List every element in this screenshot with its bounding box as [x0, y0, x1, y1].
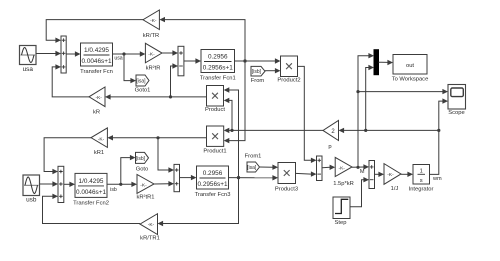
svg-text:M: M [360, 169, 365, 175]
svg-text:[isb]: [isb] [136, 156, 146, 162]
svg-text:1/J: 1/J [391, 186, 399, 192]
svg-text:-K-: -K- [150, 18, 157, 24]
svg-text:0.2956s+1: 0.2956s+1 [197, 181, 227, 188]
svg-text:Transfer Fcn3: Transfer Fcn3 [195, 192, 231, 198]
svg-text:kR²tR: kR²tR [146, 66, 161, 72]
svg-text:-K-: -K- [148, 51, 155, 57]
svg-text:[isb]: [isb] [252, 69, 262, 75]
svg-text:kR1: kR1 [94, 150, 104, 156]
svg-text:p: p [328, 144, 331, 150]
svg-text:[isa]: [isa] [247, 165, 257, 171]
svg-text:Product: Product [205, 107, 225, 113]
svg-text:-K-: -K- [338, 165, 345, 171]
svg-text:usa: usa [114, 56, 122, 62]
svg-text:0.0046s+1: 0.0046s+1 [76, 189, 106, 196]
svg-text:0.0046s+1: 0.0046s+1 [81, 58, 111, 65]
svg-text:kR/TR: kR/TR [143, 33, 159, 39]
svg-text:1/0.4295: 1/0.4295 [84, 47, 109, 54]
svg-text:Product1: Product1 [203, 149, 226, 155]
svg-text:Transfer Fcn1: Transfer Fcn1 [200, 76, 236, 82]
svg-text:kR/TR1: kR/TR1 [140, 236, 160, 242]
svg-text:Scope: Scope [448, 110, 464, 116]
svg-text:0.2956s+1: 0.2956s+1 [203, 64, 233, 71]
svg-text:usa: usa [23, 66, 34, 73]
svg-text:Integrator: Integrator [409, 186, 434, 192]
svg-text:1: 1 [420, 168, 423, 174]
svg-text:-K-: -K- [387, 172, 394, 178]
svg-text:From: From [251, 78, 265, 84]
svg-text:-K-: -K- [95, 95, 102, 101]
svg-text:kR: kR [93, 109, 100, 115]
svg-text:[isa]: [isa] [136, 79, 146, 85]
svg-text:From1: From1 [245, 154, 262, 160]
svg-text:-K-: -K- [98, 136, 105, 142]
svg-text:1/0.4295: 1/0.4295 [79, 178, 104, 185]
svg-text:0.2956: 0.2956 [208, 53, 228, 60]
svg-text:Transfer Fcn: Transfer Fcn [80, 69, 113, 75]
svg-text:out: out [406, 63, 414, 69]
svg-text:-K-: -K- [148, 222, 155, 228]
svg-text:0.2956: 0.2956 [203, 170, 223, 177]
svg-text:Goto: Goto [136, 167, 149, 173]
svg-text:wm: wm [432, 176, 442, 182]
svg-text:kR²tR1: kR²tR1 [136, 195, 154, 201]
svg-text:-K-: -K- [140, 182, 147, 188]
svg-text:s: s [420, 178, 423, 184]
svg-text:isb: isb [110, 187, 117, 193]
svg-text:Step: Step [335, 220, 347, 226]
svg-text:To Workspace: To Workspace [392, 77, 429, 83]
svg-text:Goto1: Goto1 [135, 88, 151, 94]
svg-text:usb: usb [26, 196, 37, 203]
svg-text:Product3: Product3 [275, 187, 298, 193]
svg-text:Transfer Fcn2: Transfer Fcn2 [73, 200, 109, 206]
svg-text:Product2: Product2 [277, 78, 300, 84]
svg-text:1.5p*kR: 1.5p*kR [333, 181, 354, 187]
